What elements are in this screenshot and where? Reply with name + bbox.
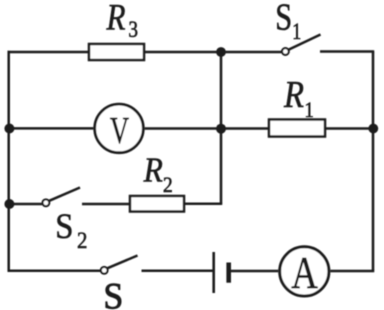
svg-text:S1: S1 bbox=[275, 0, 301, 45]
resistor R1 bbox=[269, 120, 325, 137]
node junction dot left row2 bbox=[4, 124, 14, 134]
wire R2 to center vertical bbox=[184, 203, 222, 206]
node junction dot left row3 bbox=[4, 199, 14, 209]
svg-text:V: V bbox=[110, 111, 129, 153]
node junction dot top center bbox=[216, 47, 226, 57]
wire top-left to R3 bbox=[8, 51, 90, 54]
wire voltmeter to R1 bbox=[145, 127, 269, 130]
svg-text:S: S bbox=[103, 276, 123, 310]
svg-text:R1: R1 bbox=[283, 73, 314, 123]
label R3 bbox=[106, 0, 138, 42]
ammeter A bbox=[280, 247, 329, 299]
resistor R2 bbox=[130, 196, 184, 212]
wire left vertical bbox=[7, 51, 10, 271]
node junction dot right row2 bbox=[368, 124, 378, 134]
resistor R3 bbox=[89, 44, 144, 60]
switch S bbox=[101, 256, 138, 274]
battery cell bbox=[214, 252, 229, 293]
wire row2 left bbox=[9, 127, 94, 130]
wire R3 to S1 bbox=[144, 51, 282, 54]
label R2 bbox=[143, 151, 173, 197]
label S bbox=[103, 276, 123, 310]
wire R1 to right bbox=[325, 127, 373, 130]
svg-text:R2: R2 bbox=[143, 151, 173, 197]
wire S to battery bbox=[142, 270, 214, 273]
wire right vertical bbox=[372, 52, 375, 272]
wire bottom left to S bbox=[8, 269, 101, 272]
wire center vertical bbox=[220, 52, 223, 204]
switch S2 bbox=[43, 188, 81, 207]
label S1 bbox=[275, 0, 301, 45]
wire ammeter to right bbox=[330, 270, 374, 273]
svg-text:S2: S2 bbox=[55, 207, 87, 254]
svg-text:R3: R3 bbox=[106, 0, 138, 42]
node junction dot center row2 bbox=[216, 124, 226, 134]
voltmeter V bbox=[95, 104, 144, 153]
wire battery to ammeter bbox=[231, 270, 279, 273]
wire S1 to right corner bbox=[320, 50, 374, 53]
label R1 bbox=[283, 73, 314, 123]
svg-text:A: A bbox=[291, 248, 318, 299]
wire S2 to R2 bbox=[82, 203, 130, 206]
switch S1 bbox=[282, 35, 321, 55]
label S2 bbox=[55, 207, 87, 254]
wire row3 left to S2 bbox=[9, 203, 43, 206]
